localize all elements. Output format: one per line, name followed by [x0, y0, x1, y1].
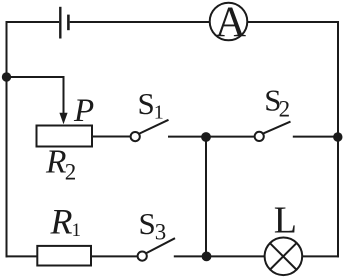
svg-text:S: S	[138, 86, 155, 121]
slider arrow P (arm of rheostat)	[59, 76, 67, 124]
svg-text:R: R	[50, 201, 73, 241]
svg-text:A: A	[215, 0, 246, 46]
wire left side vertical	[6, 21, 8, 257]
wire S3 to bottom node	[174, 255, 206, 257]
node junction middle top	[201, 132, 211, 142]
svg-text:S: S	[139, 206, 156, 241]
svg-text:1: 1	[72, 220, 82, 241]
wire top-left from corner to battery	[7, 21, 60, 23]
node junction right S2	[333, 132, 342, 141]
wire S2 to right side	[293, 136, 338, 138]
svg-text:P: P	[73, 93, 94, 129]
battery B1	[60, 7, 68, 39]
wire tap from left node to slider arm	[7, 76, 64, 78]
wire ammeter to top-right corner	[247, 21, 338, 23]
resistor R1	[37, 246, 91, 266]
wire middle node to switch S2	[206, 136, 254, 138]
svg-text:2: 2	[65, 160, 77, 185]
lamp L	[265, 237, 303, 275]
wire R2 to switch S1	[92, 136, 131, 138]
svg-text:2: 2	[279, 97, 291, 122]
wire bottom node to lamp	[206, 255, 265, 257]
switch S3	[138, 238, 175, 261]
svg-text:1: 1	[154, 102, 164, 124]
node junction middle bottom	[202, 252, 212, 262]
node junction left tap	[2, 72, 11, 81]
switch S2	[255, 122, 291, 141]
wire S1 to middle node	[168, 136, 206, 138]
wire right side vertical	[337, 21, 339, 257]
svg-text:R: R	[45, 144, 66, 181]
wire bottom-left corner to R1	[6, 255, 38, 257]
ammeter A	[210, 3, 248, 41]
wire battery to ammeter	[70, 21, 210, 23]
wire R1 to switch S3	[91, 255, 138, 257]
svg-text:L: L	[274, 199, 297, 241]
switch S1	[131, 120, 169, 141]
svg-text:3: 3	[155, 219, 167, 244]
wire middle vertical branch	[205, 137, 207, 256]
rheostat R2 body	[37, 126, 93, 147]
wire lamp to bottom-right corner	[302, 255, 339, 257]
